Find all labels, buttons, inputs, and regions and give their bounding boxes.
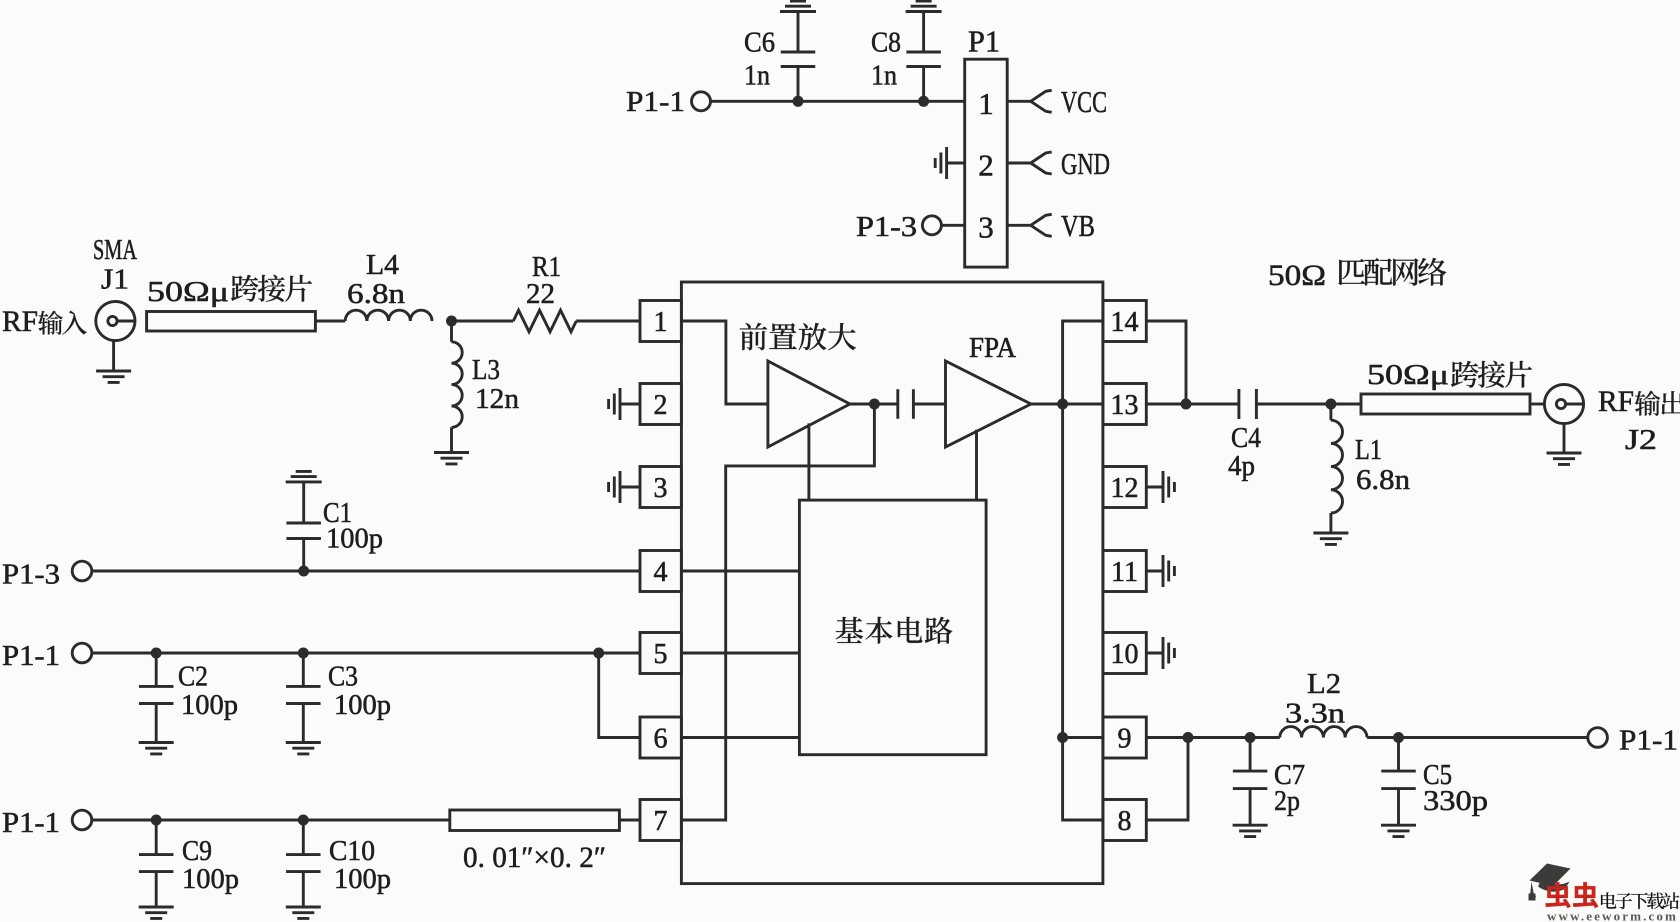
- wire pin 13 to C4: [1146, 403, 1239, 406]
- wire pin 6 to basic circuit: [681, 736, 799, 739]
- inductor L4: [345, 310, 432, 321]
- svg-text:1n: 1n: [744, 60, 770, 92]
- junction C2: [151, 648, 162, 659]
- wire P1-1 to IC pin 5: [92, 652, 640, 655]
- svg-text:9: 9: [1118, 724, 1132, 755]
- node P1-1 terminal (top): [692, 92, 711, 111]
- ground under C9: [139, 907, 174, 918]
- ground at IC pin 2: [620, 403, 640, 406]
- svg-text:2: 2: [654, 390, 668, 421]
- ground under L1: [1313, 533, 1348, 544]
- svg-text:SMA: SMA: [93, 235, 138, 266]
- svg-text:0. 01″×0. 2″: 0. 01″×0. 2″: [463, 841, 606, 874]
- wire pin 9 external: [1146, 736, 1280, 739]
- svg-text:www.eeworm.com: www.eeworm.com: [1547, 910, 1678, 922]
- junction FPA output: [1057, 399, 1068, 410]
- junction C1 on P1-3 wire: [298, 566, 309, 577]
- wire internal bus pins 14/13/9/8: [1063, 321, 1103, 820]
- ground at IC pin 12: [1146, 486, 1163, 489]
- IC pin 3 box: [640, 467, 681, 508]
- capacitor C6: [797, 12, 800, 102]
- ground at IC pin 11: [1146, 570, 1163, 573]
- svg-text:50Ωμ: 50Ωμ: [1367, 359, 1449, 391]
- IC pin 11 box: [1103, 551, 1146, 592]
- ground under C7: [1233, 825, 1268, 836]
- svg-text:4: 4: [654, 557, 668, 588]
- microstrip strip 0.01x0.2: [450, 810, 620, 831]
- IC outline box: [681, 282, 1103, 884]
- label 输入 (RF input): [38, 311, 87, 335]
- capacitor coupling (internal): [898, 389, 914, 419]
- capacitor C4: [1239, 389, 1257, 419]
- capacitor C5: [1397, 738, 1400, 826]
- IC pin 1 box: [640, 301, 681, 342]
- label 匹配网络 (matching network): [1338, 258, 1446, 286]
- svg-text:GND: GND: [1061, 146, 1110, 181]
- wire pin 1 to preamp input: [681, 321, 768, 404]
- svg-text:L2: L2: [1307, 668, 1341, 700]
- capacitor C3: [302, 653, 305, 743]
- svg-text:50Ωμ: 50Ωμ: [147, 276, 229, 308]
- IC pin 7 box: [640, 800, 681, 841]
- svg-text:L4: L4: [366, 249, 400, 281]
- svg-text:1: 1: [654, 307, 668, 338]
- wire pin 4 to basic circuit: [681, 570, 799, 573]
- svg-text:P1-1: P1-1: [2, 807, 60, 839]
- connector J1 SMA: [96, 301, 135, 340]
- svg-text:8: 8: [1118, 806, 1132, 837]
- svg-text:C3: C3: [328, 661, 358, 693]
- svg-text:10: 10: [1111, 639, 1139, 670]
- IC pin 14 box: [1103, 301, 1146, 342]
- inductor L2: [1280, 727, 1367, 738]
- junction C9: [151, 815, 162, 826]
- wire pin 8 external: [1146, 738, 1188, 821]
- ground above C1: [286, 471, 322, 482]
- IC pin 10 box: [1103, 633, 1146, 674]
- ground under L3: [434, 453, 469, 464]
- label 跨接片 (output jumper): [1451, 361, 1532, 388]
- wire preamp tap to basic circuit: [807, 423, 810, 500]
- svg-text:100p: 100p: [334, 689, 391, 721]
- pin GND fork: [1007, 162, 1030, 165]
- op-amp preamp triangle: [768, 361, 850, 447]
- svg-text:VCC: VCC: [1061, 84, 1107, 119]
- pin VB fork: [1007, 224, 1030, 227]
- svg-text:P1-3: P1-3: [2, 559, 60, 591]
- junction C4/L1/strip: [1325, 399, 1336, 410]
- block basic circuit box: [799, 500, 986, 755]
- svg-text:3: 3: [654, 473, 668, 504]
- capacitor C8: [922, 12, 925, 102]
- label 前置放大 (preamp): [740, 323, 856, 350]
- wire pin 13 internal stub: [1063, 403, 1103, 406]
- wire FPA output to pin 13: [1031, 403, 1103, 406]
- svg-text:C6: C6: [744, 27, 775, 59]
- inductor L1: [1329, 404, 1332, 420]
- ground under C3: [286, 743, 321, 754]
- wire R1 to IC pin 1: [576, 320, 640, 323]
- wire L2 to terminal P1-1: [1367, 736, 1588, 739]
- op-amp FPA triangle: [946, 361, 1032, 447]
- ground under C5: [1381, 825, 1416, 836]
- IC pin 12 box: [1103, 467, 1146, 508]
- ground at P1 pin 2: [947, 162, 965, 165]
- ground under J1: [112, 341, 115, 371]
- pin VCC fork: [1007, 100, 1030, 103]
- svg-text:P1-3: P1-3: [856, 211, 917, 243]
- node P1-3 terminal (top): [922, 216, 941, 235]
- ground above C8: [906, 1, 942, 12]
- node P1-1 terminal (left bottom): [72, 810, 92, 830]
- svg-text:C8: C8: [871, 27, 901, 59]
- ground under J2: [1563, 424, 1566, 453]
- junction pin14/pin13: [1181, 399, 1192, 410]
- junction C10: [298, 815, 309, 826]
- IC pin 13 box: [1103, 384, 1146, 425]
- svg-text:P1-1: P1-1: [1619, 725, 1678, 757]
- logo graduation cap: [1529, 864, 1571, 901]
- capacitor C9: [155, 820, 158, 907]
- node P1-3 terminal (left): [72, 561, 92, 581]
- svg-text:4p: 4p: [1228, 450, 1255, 482]
- svg-text:13: 13: [1111, 390, 1139, 421]
- svg-text:100p: 100p: [326, 523, 383, 555]
- capacitor C7: [1249, 738, 1252, 826]
- ground at IC pin 10: [1146, 652, 1163, 655]
- svg-text:VB: VB: [1061, 208, 1095, 243]
- IC pin 9 box: [1103, 717, 1146, 758]
- svg-text:6.8n: 6.8n: [1356, 464, 1411, 496]
- wire C4 to junction: [1256, 403, 1361, 406]
- svg-text:L3: L3: [472, 354, 500, 386]
- wire pin 5 to basic circuit: [681, 652, 799, 655]
- svg-text:6.8n: 6.8n: [347, 278, 406, 310]
- junction to pin 6 branch: [593, 648, 604, 659]
- junction internal bus at FPA output: [1057, 732, 1068, 743]
- junction node C8: [918, 96, 929, 107]
- svg-text:L1: L1: [1355, 434, 1382, 466]
- IC pin 5 box: [640, 633, 681, 674]
- ground under C10: [286, 907, 321, 918]
- wire P1-3 to IC pin 4: [92, 570, 640, 573]
- svg-text:14: 14: [1111, 307, 1139, 338]
- microstrip jumper strip (input): [147, 312, 316, 332]
- svg-text:C2: C2: [178, 661, 208, 693]
- logo 虫虫 (red): [1545, 882, 1598, 908]
- wire pin 14 external: [1146, 321, 1186, 404]
- junction C7: [1245, 732, 1256, 743]
- junction C3: [298, 648, 309, 659]
- svg-text:100p: 100p: [181, 689, 238, 721]
- resistor R1: [513, 310, 576, 332]
- wire strip to J2: [1530, 403, 1544, 406]
- logo 电子下载站: [1601, 892, 1679, 909]
- svg-text:2p: 2p: [1274, 785, 1300, 817]
- svg-text:RF: RF: [2, 305, 38, 338]
- svg-text:P1-1: P1-1: [626, 86, 685, 118]
- svg-text:12: 12: [1111, 473, 1139, 504]
- wire feedback pin 7 to preamp output: [681, 404, 874, 820]
- svg-text:J1: J1: [101, 264, 129, 296]
- connector P1 box: [965, 59, 1008, 267]
- svg-text:12n: 12n: [475, 383, 520, 415]
- connector J2 SMA: [1544, 384, 1583, 423]
- svg-text:3.3n: 3.3n: [1285, 698, 1346, 730]
- junction preamp output: [869, 399, 880, 410]
- microstrip jumper strip (output): [1361, 394, 1530, 414]
- wire P1-3 to P1 pin 3: [941, 224, 964, 227]
- IC pin 6 box: [640, 717, 681, 758]
- capacitor C10: [302, 820, 305, 907]
- wire branch to IC pin 6: [599, 653, 640, 738]
- svg-text:100p: 100p: [182, 863, 239, 895]
- svg-text:22: 22: [526, 278, 555, 310]
- wire P1-1 to strip: [92, 819, 450, 822]
- wire preamp output to coupling cap: [850, 403, 898, 406]
- svg-text:1n: 1n: [871, 60, 897, 92]
- ground at IC pin 3: [620, 486, 640, 489]
- wire P1-1 to P1 pin 1: [711, 100, 965, 103]
- junction C5: [1393, 732, 1404, 743]
- inductor L3: [450, 321, 453, 342]
- svg-text:7: 7: [654, 806, 668, 837]
- IC pin 4 box: [640, 551, 681, 592]
- svg-text:P1: P1: [968, 23, 1000, 58]
- wire pin 9 internal stub: [1063, 736, 1103, 739]
- svg-text:J2: J2: [1625, 424, 1657, 456]
- junction pin8/pin9: [1183, 732, 1194, 743]
- svg-text:50Ω: 50Ω: [1268, 259, 1326, 292]
- svg-text:11: 11: [1111, 557, 1138, 588]
- label 基本电路 (basic circuit): [836, 617, 953, 644]
- svg-text:100p: 100p: [334, 863, 391, 895]
- node P1-1 terminal (right): [1588, 728, 1608, 748]
- svg-text:6: 6: [654, 724, 668, 755]
- IC pin 8 box: [1103, 800, 1146, 841]
- node L4/R1/L3 junction: [446, 316, 457, 327]
- node P1-1 terminal (left middle): [72, 643, 92, 663]
- capacitor C2: [155, 653, 158, 743]
- capacitor C1: [302, 482, 305, 567]
- label 跨接片 (input jumper): [231, 275, 312, 302]
- svg-text:3: 3: [978, 210, 994, 245]
- ground under C2: [139, 743, 174, 754]
- svg-text:330p: 330p: [1423, 785, 1488, 817]
- label 输出 (RF output): [1635, 391, 1680, 416]
- svg-text:P1-1: P1-1: [2, 640, 60, 672]
- IC pin 2 box: [640, 384, 681, 425]
- wire strip to IC pin 7: [619, 819, 640, 822]
- wire junction to R1: [452, 320, 514, 323]
- svg-text:RF: RF: [1598, 385, 1634, 418]
- junction node C6: [793, 96, 804, 107]
- wire strip to L4: [315, 320, 345, 323]
- wire FPA tap to basic circuit: [975, 430, 978, 500]
- svg-text:1: 1: [978, 86, 994, 121]
- svg-text:2: 2: [978, 148, 994, 183]
- svg-text:FPA: FPA: [969, 333, 1017, 364]
- wire coupling cap to FPA: [913, 403, 945, 406]
- ground above C6: [780, 1, 816, 12]
- svg-text:5: 5: [654, 639, 668, 670]
